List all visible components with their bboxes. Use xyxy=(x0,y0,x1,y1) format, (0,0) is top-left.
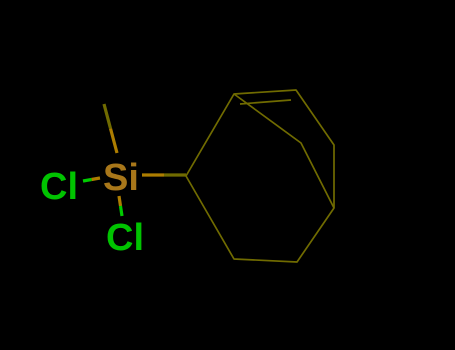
ring norbornene outline xyxy=(186,90,334,262)
bond Si-Cl bottom (Si half) xyxy=(119,196,121,206)
bridge C7 xyxy=(234,94,334,208)
svg-text:Cl: Cl xyxy=(40,166,78,208)
bond Si-Cl bottom (Cl half) xyxy=(121,206,123,216)
bond Si-ring (Si half) xyxy=(142,173,164,176)
bond methyl-Si (C half) xyxy=(104,104,111,129)
svg-text:Cl: Cl xyxy=(106,217,144,259)
bond Si-Cl left (Si half) xyxy=(92,178,101,180)
bond Si-Cl left (Cl half) xyxy=(83,180,92,182)
double bond inner line xyxy=(240,100,291,104)
bond Si-ring (C half) xyxy=(164,173,186,176)
bond methyl-Si (Si half) xyxy=(111,129,118,154)
svg-text:Si: Si xyxy=(103,157,139,199)
